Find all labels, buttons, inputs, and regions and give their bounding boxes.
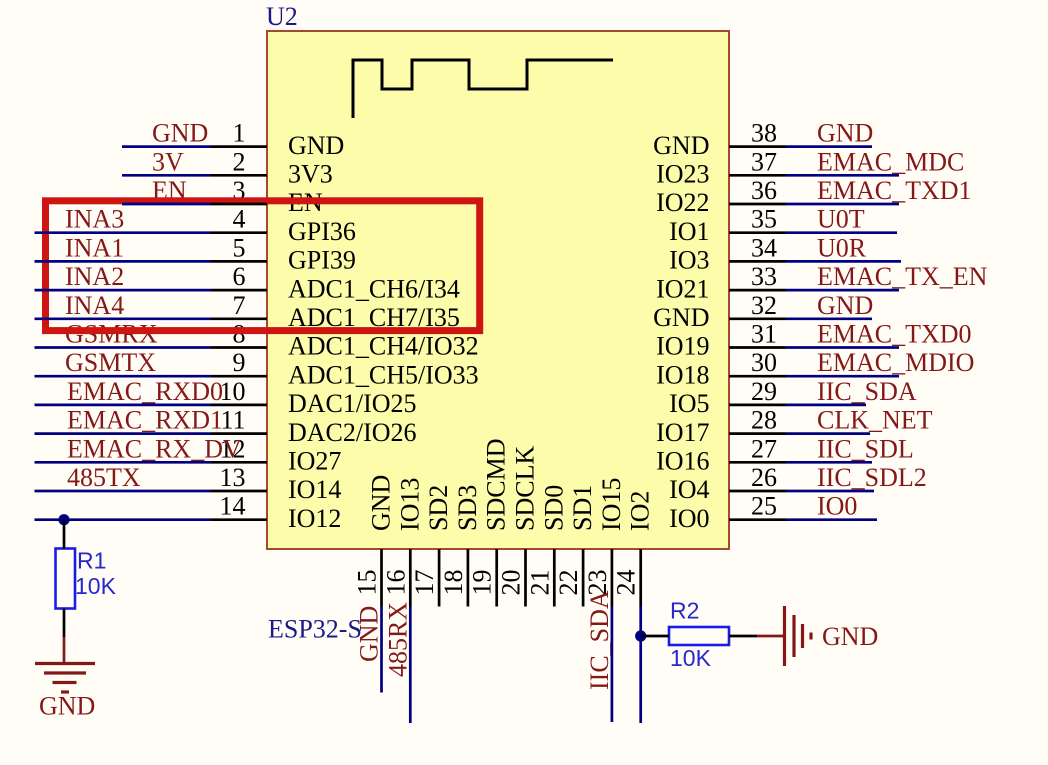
svg-text:35: 35: [751, 205, 777, 234]
svg-text:31: 31: [751, 320, 777, 349]
svg-text:EMAC_TXD0: EMAC_TXD0: [817, 320, 972, 349]
svg-text:14: 14: [220, 492, 246, 521]
svg-text:IIC_SDA: IIC_SDA: [585, 590, 614, 690]
svg-text:GND: GND: [817, 119, 873, 148]
svg-text:18: 18: [439, 570, 468, 596]
svg-text:3V: 3V: [152, 147, 184, 176]
svg-text:INA1: INA1: [65, 233, 124, 262]
svg-text:485TX: 485TX: [67, 463, 141, 492]
svg-text:GND: GND: [39, 692, 95, 721]
svg-text:IO22: IO22: [656, 188, 709, 217]
svg-text:IO23: IO23: [656, 160, 709, 189]
svg-text:38: 38: [751, 119, 777, 148]
svg-text:GND: GND: [367, 475, 396, 531]
svg-text:IO19: IO19: [656, 332, 709, 361]
svg-text:GPI36: GPI36: [288, 217, 356, 246]
svg-text:10: 10: [220, 377, 246, 406]
svg-text:GSMTX: GSMTX: [65, 348, 156, 377]
svg-text:22: 22: [554, 570, 583, 596]
svg-text:ADC1_CH6/I34: ADC1_CH6/I34: [288, 274, 460, 303]
svg-text:19: 19: [468, 570, 497, 596]
svg-text:GND: GND: [152, 119, 208, 148]
svg-text:5: 5: [233, 233, 246, 262]
svg-text:U0T: U0T: [817, 205, 865, 234]
svg-text:IIC_SDL2: IIC_SDL2: [817, 463, 927, 492]
svg-text:30: 30: [751, 348, 777, 377]
svg-text:R1: R1: [77, 548, 106, 574]
svg-text:17: 17: [410, 570, 439, 596]
svg-text:IO27: IO27: [288, 447, 341, 476]
svg-text:2: 2: [233, 147, 246, 176]
svg-text:IO18: IO18: [656, 360, 709, 389]
svg-text:26: 26: [751, 463, 777, 492]
svg-text:DAC1/IO25: DAC1/IO25: [288, 389, 417, 418]
svg-text:GND: GND: [355, 606, 384, 662]
svg-text:11: 11: [220, 406, 245, 435]
svg-text:SD2: SD2: [424, 485, 453, 531]
svg-text:IO13: IO13: [395, 478, 424, 531]
svg-text:INA2: INA2: [65, 262, 124, 291]
svg-text:32: 32: [751, 291, 777, 320]
svg-text:7: 7: [233, 291, 246, 320]
svg-text:21: 21: [525, 570, 554, 596]
svg-text:EMAC_RX_DV: EMAC_RX_DV: [67, 434, 242, 463]
svg-text:13: 13: [220, 463, 246, 492]
svg-text:10K: 10K: [670, 645, 712, 671]
svg-text:6: 6: [233, 262, 246, 291]
svg-text:IO5: IO5: [669, 389, 709, 418]
svg-text:3V3: 3V3: [288, 160, 333, 189]
svg-text:IO2: IO2: [626, 491, 655, 531]
svg-text:SDCLK: SDCLK: [511, 446, 540, 531]
svg-text:EMAC_RXD1: EMAC_RXD1: [67, 406, 223, 435]
svg-text:IO4: IO4: [669, 475, 709, 504]
svg-text:EMAC_TXD1: EMAC_TXD1: [817, 176, 972, 205]
svg-text:10K: 10K: [75, 573, 117, 599]
svg-text:IO12: IO12: [288, 504, 341, 533]
svg-text:IO0: IO0: [669, 504, 709, 533]
svg-text:36: 36: [751, 176, 777, 205]
svg-text:1: 1: [233, 119, 246, 148]
svg-text:SD0: SD0: [539, 485, 568, 531]
svg-text:27: 27: [751, 434, 777, 463]
svg-text:IO3: IO3: [669, 246, 709, 275]
svg-text:IIC_SDA: IIC_SDA: [817, 377, 917, 406]
svg-text:9: 9: [233, 348, 246, 377]
svg-text:EMAC_TX_EN: EMAC_TX_EN: [817, 262, 988, 291]
svg-text:EMAC_MDC: EMAC_MDC: [817, 147, 964, 176]
svg-text:ESP32-S: ESP32-S: [268, 614, 362, 643]
svg-text:33: 33: [751, 262, 777, 291]
svg-text:GND: GND: [653, 303, 709, 332]
svg-text:GND: GND: [822, 622, 878, 651]
svg-text:4: 4: [233, 205, 246, 234]
svg-text:EMAC_RXD0: EMAC_RXD0: [67, 377, 223, 406]
svg-text:IIC_SDL: IIC_SDL: [817, 434, 914, 463]
svg-text:SDCMD: SDCMD: [482, 439, 511, 531]
svg-text:U0R: U0R: [817, 233, 867, 262]
svg-text:37: 37: [751, 147, 777, 176]
svg-text:25: 25: [751, 492, 777, 521]
svg-text:IO16: IO16: [656, 447, 709, 476]
svg-text:DAC2/IO26: DAC2/IO26: [288, 418, 417, 447]
svg-text:INA3: INA3: [65, 205, 124, 234]
svg-text:INA4: INA4: [65, 291, 124, 320]
svg-text:485RX: 485RX: [383, 602, 412, 677]
svg-text:15: 15: [353, 570, 382, 596]
svg-text:GND: GND: [288, 131, 344, 160]
svg-text:CLK_NET: CLK_NET: [817, 406, 933, 435]
svg-text:EMAC_MDIO: EMAC_MDIO: [817, 348, 974, 377]
svg-text:IO21: IO21: [656, 274, 709, 303]
svg-text:16: 16: [381, 570, 410, 596]
svg-text:28: 28: [751, 406, 777, 435]
svg-text:IO0: IO0: [817, 492, 857, 521]
svg-text:20: 20: [497, 570, 526, 596]
svg-text:U2: U2: [266, 2, 298, 31]
svg-text:IO17: IO17: [656, 418, 709, 447]
svg-text:SD3: SD3: [453, 485, 482, 531]
svg-text:IO15: IO15: [597, 478, 626, 531]
svg-text:GPI39: GPI39: [288, 246, 356, 275]
svg-text:SD1: SD1: [568, 485, 597, 531]
svg-text:29: 29: [751, 377, 777, 406]
svg-text:ADC1_CH4/IO32: ADC1_CH4/IO32: [288, 332, 479, 361]
svg-text:GND: GND: [817, 291, 873, 320]
svg-text:IO1: IO1: [669, 217, 709, 246]
svg-text:IO14: IO14: [288, 475, 341, 504]
svg-text:R2: R2: [670, 598, 699, 624]
svg-text:GND: GND: [653, 131, 709, 160]
svg-text:ADC1_CH5/IO33: ADC1_CH5/IO33: [288, 360, 479, 389]
svg-text:34: 34: [751, 233, 777, 262]
svg-text:24: 24: [612, 570, 641, 596]
